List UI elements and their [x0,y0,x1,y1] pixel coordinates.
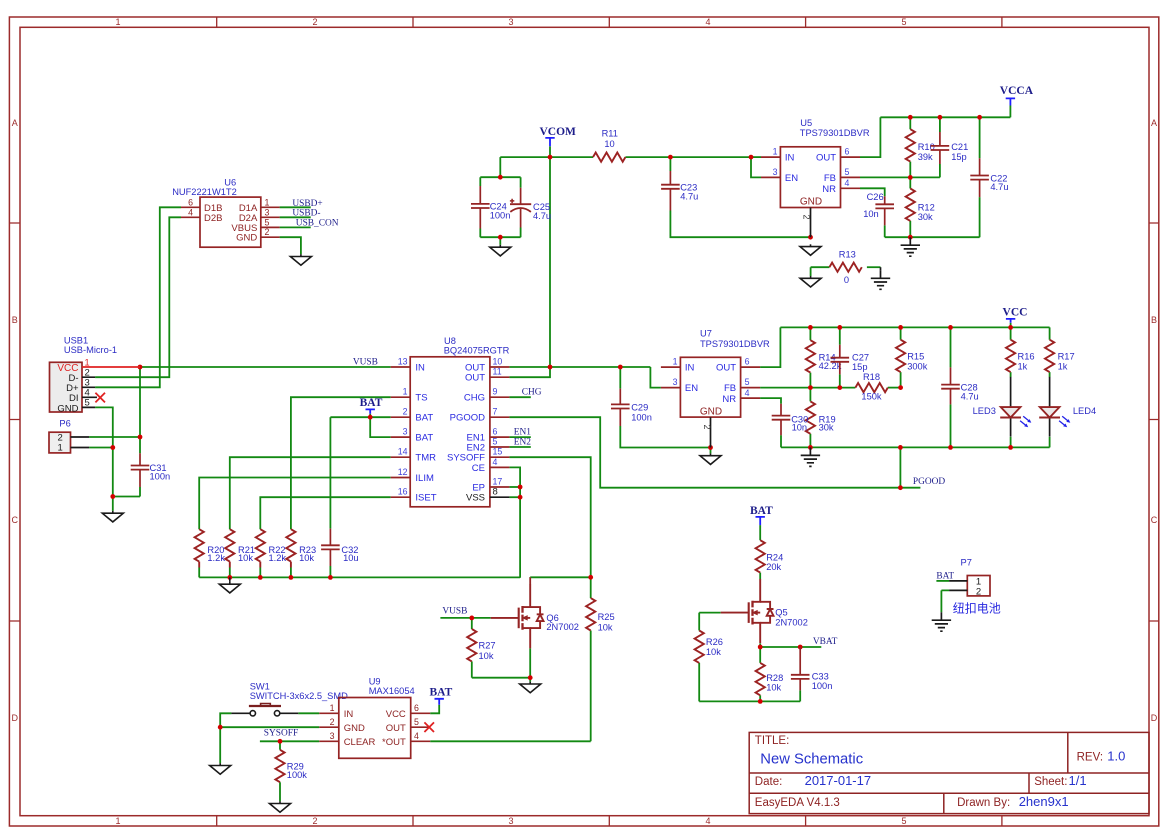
wire VCOM rail right of R11 [625,156,751,158]
junction Q5 source VBAT [758,645,763,650]
capacitor C26 [863,192,894,225]
svg-text:CLEAR: CLEAR [344,737,376,748]
transistor Q5 2N7002 [721,579,808,643]
resistor R21 [225,529,255,567]
svg-text:30k: 30k [918,212,933,222]
svg-text:Sheet:: Sheet: [1034,776,1067,788]
svg-text:0: 0 [844,275,849,285]
wire U9 GND [220,726,319,728]
svg-text:VCC: VCC [386,709,406,720]
junction C28 top [948,325,953,330]
svg-text:100n: 100n [150,472,171,482]
resistor R27 [467,629,495,661]
wire VCC rail [780,326,1049,328]
svg-text:EasyEDA V4.1.3: EasyEDA V4.1.3 [755,797,840,809]
svg-text:1: 1 [115,17,120,27]
svg-text:GND: GND [800,197,822,208]
resistor R16 [1006,340,1035,372]
svg-text:6: 6 [845,147,850,157]
wire R24 bottom lead [759,573,761,580]
wire Q5 source to VBAT [760,643,821,647]
wire R25 top lead [590,577,592,598]
wire C30 bottom lead [780,435,782,447]
wire U8 BAT pin3 riser [370,417,391,437]
USB1 pin1 VCC red stub [82,366,140,368]
wire C27 leads [839,327,841,387]
svg-text:5: 5 [414,717,419,727]
svg-text:5: 5 [493,437,498,447]
svg-text:15p: 15p [852,362,868,372]
frame row ticks left [9,223,20,621]
svg-text:6: 6 [493,427,498,437]
ground under R29 [270,801,291,812]
svg-text:20k: 20k [766,562,781,572]
resistor R22 [256,529,287,567]
svg-text:OUT: OUT [465,373,485,384]
svg-text:10k: 10k [299,553,314,563]
svg-text:2: 2 [702,424,712,429]
svg-text:USB_CON: USB_CON [296,219,339,229]
ground under U7 [700,453,721,464]
svg-text:SYSOFF: SYSOFF [264,728,298,738]
resistor R19 [806,401,836,433]
svg-text:2N7002: 2N7002 [775,617,808,627]
resistor R17 [1045,340,1075,372]
wire C28 leads [950,327,952,447]
svg-text:100k: 100k [287,770,308,780]
capacitor C28 [941,367,979,404]
wire gnd rail under R12 [885,236,980,238]
svg-text:10n: 10n [863,209,879,219]
junction Q6 source gnd [528,675,533,680]
svg-text:D: D [1151,713,1158,723]
frame row letters right [1151,118,1158,723]
wire U8 EN1 stub [509,436,530,438]
svg-text:R16: R16 [1018,352,1035,362]
svg-text:1: 1 [673,357,678,367]
svg-text:GND: GND [57,403,78,414]
svg-text:2: 2 [403,407,408,417]
wire U8 ILIM to R20 [199,478,391,530]
svg-text:ILIM: ILIM [415,473,434,484]
svg-text:100n: 100n [490,211,511,221]
wire U9 CLEAR / SYSOFF [260,740,319,742]
svg-text:NR: NR [722,394,736,405]
junction C29 branch [618,365,623,370]
wire R18 right lead [888,387,901,389]
svg-text:4.7u: 4.7u [961,391,979,401]
wire VCCA flag stem [1009,106,1011,118]
svg-text:P6: P6 [59,419,70,429]
wire U5 EN drop [751,157,761,177]
svg-text:1k: 1k [1018,362,1028,372]
frame row ticks right [1149,223,1159,621]
svg-text:R13: R13 [839,250,856,260]
svg-text:R25: R25 [598,612,615,622]
svg-text:39k: 39k [918,152,933,162]
svg-text:R11: R11 [602,129,618,139]
svg-text:TS: TS [415,393,427,404]
svg-text:10n: 10n [792,423,808,433]
svg-text:3: 3 [673,377,678,387]
wire VCOM flag stem lower [549,146,551,157]
svg-text:100n: 100n [631,412,652,422]
capacitor C32 [321,529,359,566]
svg-text:2: 2 [802,214,812,219]
junction P6 pin2 [138,435,143,440]
junction R21 bottom [227,575,232,580]
svg-text:SW1: SW1 [250,681,270,691]
svg-text:3: 3 [403,427,408,437]
svg-text:6: 6 [414,703,419,713]
wire C23 top lead [669,157,671,171]
svg-text:5: 5 [901,816,906,826]
svg-text:USBD+: USBD+ [292,199,322,209]
svg-text:R15: R15 [907,352,924,362]
wire P7 pin2 to gnd [941,590,949,612]
wire Q6 gate/VUSB [440,617,490,619]
svg-text:REV:: REV: [1077,751,1103,763]
svg-text:ISET: ISET [415,493,436,504]
capacitor C29 [611,389,652,426]
junction R23 bottom [289,575,294,580]
svg-text:R27: R27 [479,640,496,650]
junction U8 VSS [518,495,523,500]
wire C23 bottom to U5 GND [670,211,810,238]
resistor R14 [806,340,842,372]
capacitor C27 [831,345,870,375]
svg-text:C26: C26 [867,192,884,202]
svg-text:1.0: 1.0 [1107,748,1125,763]
svg-text:3: 3 [330,731,335,741]
wire R13 left lead [811,267,830,276]
svg-text:C33: C33 [812,672,829,682]
IC U6 NUF2221W1T2 [172,177,279,247]
svg-text:MAX16054: MAX16054 [369,686,415,696]
capacitor C21 [931,132,969,164]
svg-text:NUF2221W1T2: NUF2221W1T2 [172,187,237,197]
ground under C31/P6 [102,511,123,522]
junction PGOOD label [898,485,903,490]
wire U8 ISET to R22 [260,497,390,529]
svg-text:4.7u: 4.7u [990,182,1008,192]
wire R16 leads [1010,327,1012,377]
svg-text:1.2k: 1.2k [269,553,287,563]
svg-text:USB-Micro-1: USB-Micro-1 [64,345,117,355]
wire U5 NR to C26 [860,188,885,196]
svg-text:IN: IN [685,363,695,374]
svg-text:15: 15 [493,447,503,457]
wire U6 D1B to USB D+ [95,207,181,387]
wire VCOM vertical to U8 OUT [549,157,551,367]
svg-text:New Schematic: New Schematic [760,752,863,768]
svg-text:10k: 10k [706,647,721,657]
connector USB1 USB-Micro-1 [50,336,141,415]
earth ground under P7 [932,612,951,631]
wire gnd stem to triangle [112,497,114,511]
svg-text:8: 8 [493,487,498,498]
svg-text:VCCA: VCCA [1000,85,1034,97]
junction C27 bottom [837,385,842,390]
svg-text:B: B [1151,315,1157,325]
title block [749,732,1149,813]
junction R15 top [898,325,903,330]
svg-text:4: 4 [414,731,419,741]
capacitor C24 [471,186,510,229]
svg-text:5: 5 [265,217,270,227]
svg-text:TPS79301DBVR: TPS79301DBVR [800,128,870,138]
svg-text:VUSB: VUSB [353,358,378,368]
wire VBAT bottom rail [699,700,800,702]
wire LED4 bottom [1049,437,1051,448]
svg-text:BAT: BAT [415,413,433,424]
svg-text:PGOOD: PGOOD [913,477,946,487]
svg-text:1/1: 1/1 [1069,773,1087,788]
resistor R18 [855,372,887,402]
resistor R28 [756,663,784,695]
wire SYSOFF drop [509,457,590,577]
svg-text:R28: R28 [766,673,783,683]
wire R26 leads [698,613,700,702]
svg-text:1: 1 [403,387,408,397]
junction SW1 gnd [218,725,223,730]
wire U9 *OUT run [430,740,591,742]
resistor R29 [275,750,307,782]
wire C29 bottom [620,426,710,448]
junction R10 top [908,115,913,120]
earth ground R13 right [871,267,890,289]
net flag BAT at R24 [750,505,773,525]
svg-text:C29: C29 [631,403,648,413]
junction P6 pin1 [110,445,115,450]
wire U6 D2B to USB D- [95,217,181,377]
svg-text:VCC: VCC [1003,307,1028,319]
wire VUSB drop to P6/C31 [139,367,141,453]
wire U8 OUT pin11 [509,367,550,377]
switch SW1 [231,681,348,716]
wire SW1 left drop to gnd [220,713,231,763]
svg-text:BAT: BAT [430,686,453,698]
svg-text:1: 1 [265,197,270,207]
resistor R23 [286,529,316,567]
wire P6 pin1 [89,447,113,449]
svg-text:3: 3 [508,816,513,826]
wire R28 leads [759,647,761,701]
svg-text:NR: NR [822,184,836,195]
LED4 [1039,377,1096,437]
wire PGOOD riser [899,447,901,487]
wire R17 leads [1049,327,1051,377]
capacitor C33 [791,647,832,691]
svg-text:USBD-: USBD- [292,209,320,219]
junction C23 top [668,155,673,160]
svg-text:C: C [1151,515,1158,525]
junction C24/C25 top [498,175,503,180]
svg-text:BAT: BAT [360,397,383,409]
wire PGOOD run [509,417,920,488]
resistor R12 [906,189,935,223]
wire U7 OUT riser [760,327,780,367]
svg-text:LED3: LED3 [973,406,996,416]
svg-text:2: 2 [265,227,270,237]
ground under C24/C25 [490,245,511,256]
svg-text:OUT: OUT [716,363,736,374]
capacitor C22 [970,158,1008,197]
svg-text:GND: GND [236,233,257,244]
connector P7 button cell [949,558,1001,616]
transistor Q6 2N7002 [491,577,579,648]
junction U5 GND [808,235,813,240]
wire U8 OUT pin10 rail [509,366,650,368]
frame column numbers top [115,17,906,27]
svg-text:2: 2 [976,586,981,597]
svg-text:R12: R12 [918,202,935,212]
connector P6 [49,419,89,454]
wire VCOM horizontal rail [500,156,593,158]
wire U8 CHG stub [509,396,530,398]
junction gnd corner [110,494,115,499]
svg-text:1k: 1k [1058,362,1068,372]
wire VCCA rail [880,116,1010,118]
svg-text:VCOM: VCOM [539,126,576,138]
svg-text:C: C [11,515,18,525]
svg-text:10u: 10u [343,553,359,563]
wire C21 leads [939,117,941,177]
capacitor C23 [661,171,698,211]
frame row letters left [11,118,18,723]
svg-text:10k: 10k [479,651,494,661]
svg-text:1.2k: 1.2k [207,553,225,563]
svg-text:TPS79301DBVR: TPS79301DBVR [700,339,770,349]
svg-text:16: 16 [398,487,408,497]
wire C33 bottom lead [799,690,801,701]
svg-text:1: 1 [58,442,63,453]
svg-text:14: 14 [398,447,408,457]
junction C21 top [938,115,943,120]
svg-text:SWITCH-3x6x2.5_SMD: SWITCH-3x6x2.5_SMD [250,691,348,701]
wire C26 bottom lead [884,225,886,237]
wire Q6 source gnd bar [472,648,530,681]
wire U5 IN segment [751,156,761,158]
svg-text:EN1: EN1 [514,427,531,437]
svg-text:U5: U5 [800,118,812,128]
svg-text:7: 7 [493,407,498,417]
svg-text:10: 10 [604,139,614,149]
wire R27 bottom lead [471,661,473,677]
junction R15 bottom [898,385,903,390]
wire Q6 drain link to SYSOFF [530,576,591,579]
USB1 no-connect X on DI [95,393,105,403]
svg-text:BAT: BAT [750,505,773,517]
LED3 [973,377,1032,437]
wire C22 leads [979,117,981,237]
svg-text:10k: 10k [238,553,253,563]
svg-text:6: 6 [188,197,193,207]
svg-text:*OUT: *OUT [382,737,406,748]
svg-text:EN: EN [785,173,798,184]
frame column ticks top [217,17,1002,27]
svg-text:4.7u: 4.7u [680,191,698,201]
junction R14 top [808,325,813,330]
wire U8 EN2 stub [509,446,530,448]
svg-text:13: 13 [398,357,408,367]
wire P6 pin2 to VUSB [89,436,140,438]
svg-text:CHG: CHG [522,387,542,397]
svg-text:Drawn By:: Drawn By: [957,797,1010,809]
wire R29 leads [279,741,281,801]
wire U5 OUT riser to VCCA rail [860,117,880,157]
IC U9 MAX16054 [319,677,434,759]
svg-text:FB: FB [724,383,736,394]
junction VUSB/R27/Q6 gate [469,616,474,621]
svg-text:VBAT: VBAT [813,637,838,647]
svg-text:A: A [12,118,18,128]
junction U5 IN/EN [749,155,754,160]
wire P7 BAT [936,580,949,582]
wire C24/C25 bottom bar [480,228,520,245]
wire U8 CE drop [509,467,520,577]
svg-text:5: 5 [845,167,850,177]
svg-text:300k: 300k [907,362,928,372]
resistor R20 [195,529,226,567]
svg-text:C21: C21 [951,142,968,152]
svg-text:TMR: TMR [415,453,436,464]
svg-text:2: 2 [312,17,317,27]
svg-text:Q5: Q5 [775,608,787,618]
wire U8 TMR to R21 [230,457,391,529]
junction C32 bottom [328,575,333,580]
svg-text:10: 10 [493,357,503,367]
ground under U6 [290,254,311,265]
IC U8 BQ24075RGTR [391,336,510,507]
wire usb gnd: USB1 pin5 down [95,407,113,496]
svg-text:GND: GND [344,723,365,734]
svg-text:3: 3 [265,207,270,217]
svg-text:R26: R26 [706,637,723,647]
junction U7 GND [708,445,713,450]
svg-text:U8: U8 [444,336,456,346]
wire U8 TS to R23 [291,397,391,529]
svg-text:GND: GND [700,406,722,417]
svg-text:LED4: LED4 [1073,406,1096,416]
svg-text:4: 4 [493,457,498,467]
net flag BAT at U8 [360,397,383,414]
junction LED3 bottom [1008,445,1013,450]
wire BAT flag to U8 BAT pins [330,414,390,418]
wire R13 right lead [867,266,881,268]
USB1 pins 2-5 stubs [82,377,97,407]
svg-text:2: 2 [312,816,317,826]
wire SW1 right to U9 IN [298,712,319,714]
svg-text:4: 4 [845,178,850,188]
wire R14 leads [809,327,811,387]
svg-text:1: 1 [330,703,335,713]
svg-text:BQ24075RGTR: BQ24075RGTR [444,346,510,356]
wire C29 branch [619,367,621,389]
svg-text:OUT: OUT [816,153,836,164]
junction VCOM at U8 OUT [548,365,553,370]
svg-text:PGOOD: PGOOD [450,413,486,424]
ground under R21 bank [219,577,240,593]
capacitor C30 [772,404,809,435]
svg-text:4: 4 [705,816,710,826]
svg-text:5: 5 [745,377,750,387]
svg-text:2017-01-17: 2017-01-17 [805,773,872,788]
net flag BAT at U9 [430,686,453,704]
U9 no-connect X on OUT [424,722,434,732]
resistor R15 [896,340,928,372]
svg-text:IN: IN [785,153,795,164]
